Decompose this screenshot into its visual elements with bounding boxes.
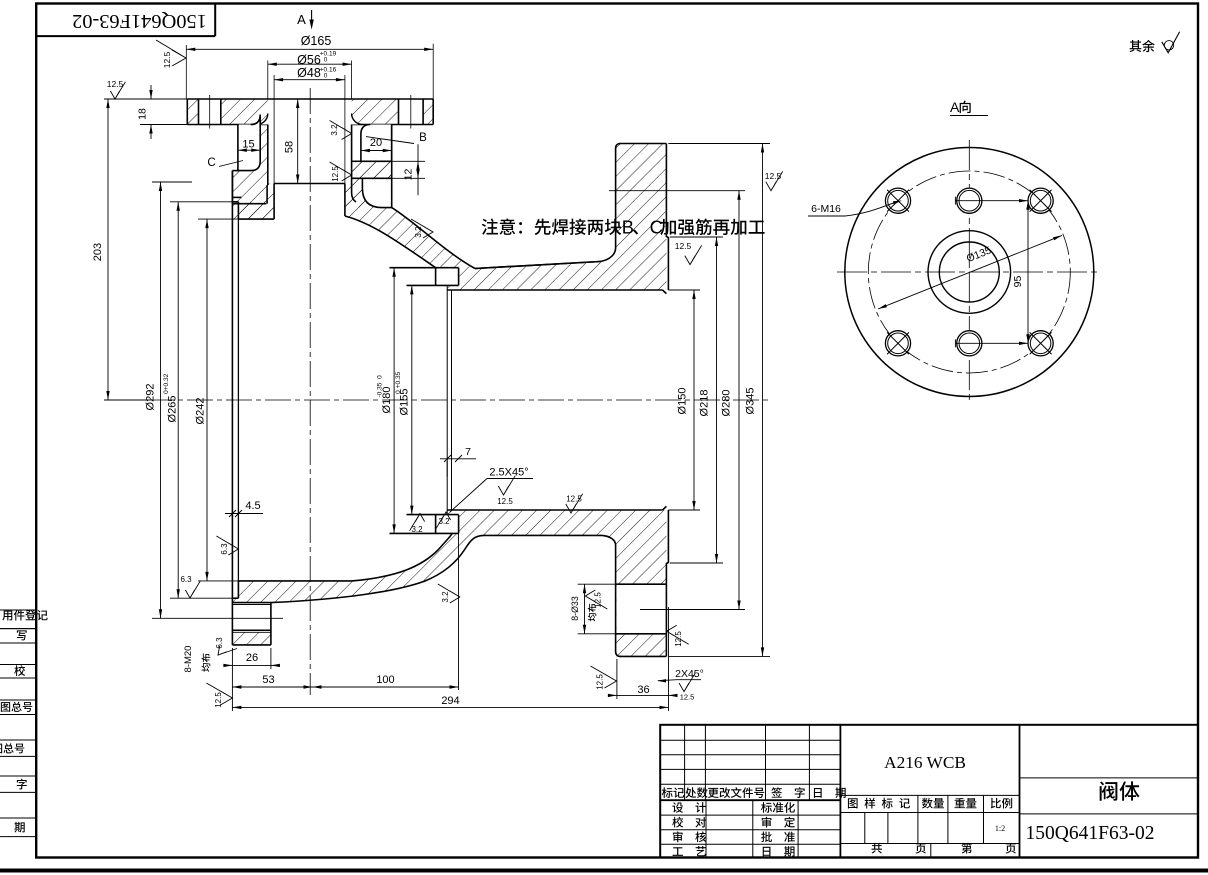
svg-text:6-M16: 6-M16	[811, 203, 841, 215]
svg-text:1:2: 1:2	[995, 824, 1005, 833]
svg-text:+0.35: +0.35	[395, 371, 402, 388]
svg-text:Ø242: Ø242	[195, 398, 207, 425]
svg-text:A: A	[950, 99, 960, 115]
svg-text:Ø180: Ø180	[381, 387, 393, 414]
svg-text:Ø292: Ø292	[145, 384, 157, 411]
svg-text:A216 WCB: A216 WCB	[884, 753, 966, 772]
svg-text:12.5: 12.5	[162, 51, 172, 68]
svg-text:100: 100	[376, 674, 394, 686]
svg-text:12.5: 12.5	[596, 674, 605, 690]
svg-text:Ø218: Ø218	[699, 390, 711, 417]
svg-text:3.2: 3.2	[411, 525, 423, 534]
svg-text:12.5: 12.5	[674, 631, 683, 647]
svg-text:12.5: 12.5	[214, 692, 223, 708]
svg-text:3.2: 3.2	[330, 124, 339, 136]
svg-text:0: 0	[324, 73, 328, 80]
svg-text:2.5X45°: 2.5X45°	[489, 467, 528, 479]
svg-text:7: 7	[465, 446, 471, 458]
svg-text:Ø345: Ø345	[745, 388, 757, 415]
svg-text:B: B	[419, 132, 427, 144]
svg-text:18: 18	[137, 108, 149, 120]
svg-text:+0.19: +0.19	[320, 51, 337, 58]
svg-text:6.3: 6.3	[180, 575, 192, 584]
svg-text:Ø165: Ø165	[301, 34, 332, 48]
svg-text:C: C	[207, 157, 215, 169]
svg-text:150Q641F63-02: 150Q641F63-02	[1026, 823, 1155, 844]
svg-text:Ø280: Ø280	[721, 390, 733, 417]
svg-text:12.5: 12.5	[675, 241, 692, 251]
svg-text:+0.32: +0.32	[163, 373, 170, 390]
svg-text:8-M20: 8-M20	[183, 646, 194, 673]
svg-text:12.5: 12.5	[594, 592, 603, 608]
svg-text:6.3: 6.3	[215, 637, 224, 649]
svg-text:26: 26	[246, 652, 258, 664]
svg-text:4.5: 4.5	[245, 500, 260, 512]
svg-text:150Q641F63-02: 150Q641F63-02	[72, 10, 207, 32]
svg-text:6.3: 6.3	[220, 543, 229, 555]
svg-text:3.2: 3.2	[438, 517, 450, 526]
svg-text:0: 0	[163, 390, 170, 394]
svg-text:3.2: 3.2	[414, 226, 423, 238]
svg-text:36: 36	[637, 684, 649, 696]
svg-text:+0.16: +0.16	[320, 67, 337, 74]
svg-text:0: 0	[377, 375, 384, 379]
svg-text:12.5: 12.5	[497, 497, 513, 506]
svg-text:B: B	[622, 217, 634, 238]
svg-text:Ø265: Ø265	[167, 396, 179, 423]
svg-text:294: 294	[441, 695, 459, 707]
svg-text:95: 95	[1012, 276, 1024, 288]
svg-text:12.5: 12.5	[680, 693, 695, 702]
svg-text:Ø48: Ø48	[297, 66, 321, 80]
svg-text:0: 0	[324, 57, 328, 64]
svg-text:Ø155: Ø155	[399, 389, 411, 416]
svg-text:58: 58	[284, 141, 296, 153]
svg-text:3.2: 3.2	[441, 591, 450, 603]
svg-text:12.5: 12.5	[107, 79, 124, 89]
svg-text:2X45°: 2X45°	[675, 668, 704, 680]
svg-text:203: 203	[92, 243, 104, 261]
svg-text:C: C	[650, 217, 663, 238]
svg-text:12.5: 12.5	[566, 495, 582, 504]
svg-text:12.5: 12.5	[331, 166, 340, 182]
svg-text:Ø56: Ø56	[297, 53, 321, 67]
svg-text:Ø150: Ø150	[677, 388, 689, 415]
svg-text:12.5: 12.5	[765, 171, 782, 181]
svg-text:A: A	[297, 12, 306, 27]
svg-text:15: 15	[242, 139, 254, 151]
svg-text:53: 53	[262, 674, 274, 686]
svg-text:8-Ø33: 8-Ø33	[570, 596, 580, 621]
